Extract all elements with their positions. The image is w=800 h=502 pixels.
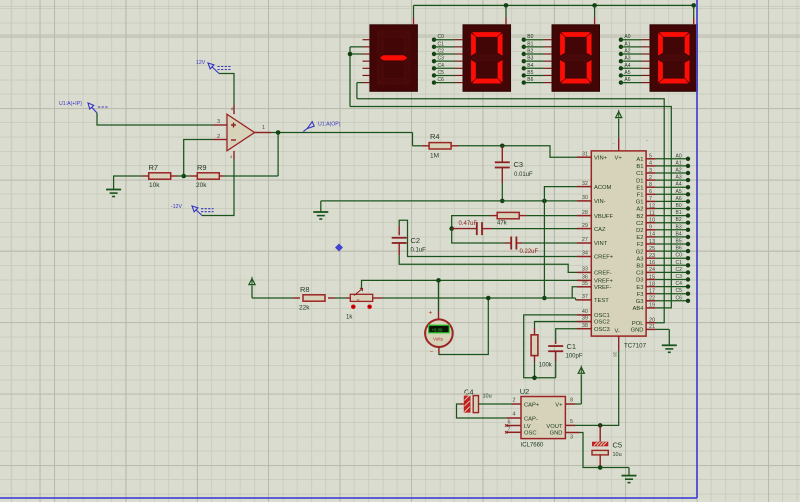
svg-text:14: 14 [649, 232, 655, 238]
svg-text:C2: C2 [411, 236, 421, 245]
wire R4 to VIN+ node [459, 145, 503, 147]
svg-text:8: 8 [570, 398, 573, 404]
svg-text:A5: A5 [624, 70, 630, 76]
svg-text:E3: E3 [636, 285, 643, 291]
svg-text:U1:A(OP): U1:A(OP) [318, 122, 341, 128]
node A0 [619, 34, 650, 42]
7-segment display DS2 (digit 0) [463, 25, 511, 92]
ground GND4 [622, 476, 637, 483]
svg-text:C1: C1 [676, 260, 683, 266]
wire common to R8 [252, 297, 293, 299]
svg-text:A6: A6 [624, 77, 630, 83]
node B3 (IC side) [656, 224, 691, 232]
svg-text:B1: B1 [636, 164, 643, 170]
svg-text:−: − [430, 349, 434, 356]
node B6 [522, 77, 552, 85]
svg-text:B1: B1 [527, 41, 533, 47]
pin DS3 common [594, 5, 596, 24]
svg-text:A1: A1 [636, 157, 643, 163]
svg-text:C6: C6 [676, 295, 683, 301]
node A0 (IC side) [656, 153, 691, 161]
pin DS4 common [693, 5, 695, 24]
svg-text:29: 29 [582, 223, 588, 229]
svg-text:24: 24 [649, 267, 655, 273]
svg-text:VREF+: VREF+ [594, 279, 613, 285]
junction dot C3/VIN- [500, 199, 505, 204]
svg-text:E2: E2 [636, 235, 643, 241]
op-amp U1:A [217, 106, 265, 159]
wire GND pin to ground [656, 329, 670, 345]
svg-text:B6: B6 [676, 246, 682, 252]
svg-text:TEST: TEST [594, 298, 609, 304]
svg-text:C4: C4 [676, 281, 683, 287]
svg-text:B2: B2 [676, 217, 682, 223]
capacitor C3 [495, 146, 533, 183]
svg-text:4: 4 [512, 412, 515, 418]
wire node A to 0.22uF [452, 229, 505, 243]
svg-text:10k: 10k [149, 182, 160, 189]
node A6 (IC side) [656, 196, 691, 204]
svg-text:B0: B0 [676, 203, 682, 209]
svg-text:12V: 12V [196, 60, 206, 66]
junction dot common/TEST [542, 296, 547, 301]
svg-text:Volts: Volts [433, 337, 444, 342]
pin U2 OSC (7) [505, 426, 521, 433]
pin U2 VOUT (5) [565, 419, 600, 425]
IC U3 right pin stubs and numbers [646, 154, 656, 331]
wire U2 GND to bottom node [580, 433, 601, 468]
node B3 [522, 56, 552, 64]
svg-text:G2: G2 [636, 249, 644, 255]
pin U1 -input [213, 139, 227, 141]
svg-text:16: 16 [649, 260, 655, 266]
wire VREF- to TEST net [572, 287, 577, 298]
junction dot meter return [486, 296, 491, 301]
svg-text:A1: A1 [624, 41, 630, 47]
pin DS2 common [505, 5, 507, 24]
node A4 (IC side) [656, 182, 691, 190]
svg-text:F1: F1 [637, 193, 644, 199]
node A3 [619, 56, 650, 64]
svg-text:4: 4 [230, 154, 233, 159]
svg-text:B1: B1 [676, 210, 682, 216]
svg-text:38: 38 [582, 323, 588, 329]
svg-text:0.22uF: 0.22uF [520, 249, 539, 255]
svg-text:‒: ‒ [646, 137, 649, 142]
node C5 [432, 70, 463, 78]
svg-text:D2: D2 [636, 228, 643, 234]
junction dot disp3 top [592, 3, 597, 8]
wire junction to U1 -input [184, 140, 213, 177]
node A1 [619, 41, 650, 49]
svg-text:28: 28 [582, 210, 588, 216]
svg-text:ICL7660: ICL7660 [521, 443, 544, 449]
wire R9 to R7 [184, 175, 190, 177]
wire C2 top to CREF+ [399, 220, 577, 256]
junction dot osc node [532, 376, 537, 381]
junction dot R7/R9 [181, 174, 186, 179]
svg-text:V+: V+ [615, 155, 623, 161]
capacitor C2 [392, 226, 426, 255]
svg-text:VIN+: VIN+ [594, 155, 608, 161]
svg-text:R9: R9 [197, 163, 207, 172]
svg-text:C4: C4 [438, 63, 445, 69]
resistor R9 [190, 163, 224, 189]
svg-text:C0: C0 [676, 253, 683, 259]
svg-text:A3: A3 [636, 256, 643, 262]
node B2 [522, 49, 552, 57]
svg-text:TC7107: TC7107 [624, 343, 647, 350]
node C2 [432, 49, 463, 57]
svg-text:26: 26 [613, 352, 618, 357]
node B0 (IC side) [656, 203, 691, 211]
node C0 [432, 34, 463, 42]
capacitor C5 10u [592, 425, 622, 467]
wire OSC1 [524, 315, 577, 378]
pins DS1 segment stubs [363, 40, 370, 83]
svg-text:33: 33 [582, 267, 588, 273]
svg-text:C3: C3 [514, 160, 524, 169]
svg-text:V-: V- [615, 329, 621, 335]
svg-text:1: 1 [262, 125, 265, 131]
terminal U1:A(+IP) input [59, 101, 109, 113]
node B6 (IC side) [656, 246, 691, 254]
svg-text:R7: R7 [149, 163, 159, 172]
svg-text:8: 8 [649, 182, 652, 188]
svg-text:5: 5 [649, 154, 652, 160]
svg-text:17: 17 [649, 289, 655, 295]
svg-text:19: 19 [649, 303, 655, 309]
svg-text:B2: B2 [527, 49, 533, 55]
svg-text:VIN-: VIN- [594, 199, 606, 205]
svg-text:OSC2: OSC2 [594, 320, 610, 326]
svg-text:A0: A0 [676, 153, 682, 159]
potentiometer RV1 1k [346, 288, 383, 320]
wire ACOM to VIN- [544, 187, 577, 201]
svg-text:100pF: 100pF [566, 354, 583, 360]
svg-text:7: 7 [507, 426, 510, 432]
svg-text:20: 20 [649, 318, 655, 324]
wire AB4 bus [350, 107, 671, 308]
terminal label U1:A(OP) [303, 122, 340, 132]
wire R8 to RV1 [335, 297, 346, 299]
IC U3 left pin names [594, 155, 614, 333]
wire C4 to CAP- [457, 404, 507, 418]
wire C2 bottom to CREF- [399, 255, 577, 272]
svg-text:ACOM: ACOM [594, 185, 612, 191]
svg-text:B4: B4 [527, 63, 533, 69]
resistor 47k (buffer) [490, 212, 526, 226]
pin U2 V+ (8) [565, 398, 581, 405]
svg-text:C2: C2 [676, 267, 683, 273]
svg-text:C3: C3 [676, 274, 683, 280]
svg-text:A5: A5 [676, 189, 682, 195]
svg-text:VBUFF: VBUFF [594, 214, 613, 220]
resistor R8 [293, 285, 335, 312]
node C5 (IC side) [656, 288, 691, 296]
svg-text:12: 12 [649, 203, 655, 209]
svg-text:B3: B3 [527, 56, 533, 62]
node B2 (IC side) [656, 217, 691, 225]
wire R7 to ground [114, 176, 184, 189]
wire TEST pin riser [576, 298, 577, 300]
svg-text:2: 2 [512, 398, 515, 404]
node C1 (IC side) [656, 260, 691, 268]
junction dot wiper/meter [436, 278, 441, 283]
capacitor C1 100pF [535, 329, 583, 378]
pin U2 GND (3) [565, 433, 579, 441]
node B4 (IC side) [656, 231, 691, 239]
node C4 [432, 63, 463, 71]
svg-text:23: 23 [649, 253, 655, 259]
node A6 [619, 77, 650, 85]
wire C3 to VIN- net [501, 183, 503, 201]
svg-text:B0: B0 [527, 34, 533, 40]
svg-text:A3: A3 [676, 175, 682, 181]
svg-text:0.1uF: 0.1uF [411, 248, 427, 254]
svg-text:21: 21 [649, 324, 655, 330]
marker blue diamond [335, 244, 343, 252]
svg-text:39: 39 [582, 316, 588, 322]
pin U1 V- [233, 151, 235, 159]
IC U3 TC7107 body [591, 137, 649, 357]
svg-text:GND: GND [550, 431, 563, 437]
svg-text:6: 6 [649, 189, 652, 195]
svg-text:OSC3: OSC3 [594, 327, 610, 333]
svg-text:F2: F2 [637, 242, 644, 248]
svg-text:A4: A4 [624, 63, 630, 69]
svg-text:C2: C2 [636, 221, 643, 227]
svg-text:47k: 47k [497, 221, 508, 227]
svg-text:3: 3 [217, 119, 220, 125]
wire bottom node to ground [600, 468, 629, 476]
wire U1 output to R4 [413, 133, 422, 146]
svg-text:VOUT: VOUT [546, 424, 563, 430]
svg-text:A6: A6 [676, 196, 682, 202]
svg-text:2: 2 [649, 175, 652, 181]
wire top common rail [414, 5, 694, 17]
svg-text:C3: C3 [438, 56, 445, 62]
node A3 (IC side) [656, 175, 691, 183]
svg-text:B3: B3 [636, 264, 643, 270]
terminal -12V [171, 204, 214, 216]
wire RV1 right to TEST net [383, 297, 576, 299]
junction dot C5 bottom [598, 465, 603, 470]
svg-text:-12V: -12V [171, 204, 182, 210]
wire common vertical to TEST net [543, 201, 545, 298]
svg-text:0.47uF: 0.47uF [459, 221, 478, 227]
svg-text:G3: G3 [636, 299, 644, 305]
node C3 (IC side) [656, 274, 691, 282]
wire POL bus [357, 99, 664, 323]
svg-text:VREF-: VREF- [594, 285, 611, 291]
svg-text:VINT: VINT [594, 241, 608, 247]
pin DS1 common [413, 18, 415, 25]
wire DS1 seg pins to AB4 bus [350, 47, 363, 107]
resistor R7 [142, 163, 177, 189]
node B1 (IC side) [656, 210, 691, 218]
svg-text:10: 10 [649, 218, 655, 224]
node C2 (IC side) [656, 267, 691, 275]
pin U1 +input [213, 124, 227, 126]
svg-text:18: 18 [649, 281, 655, 287]
wire RV1 wiper to VREF+ [362, 280, 582, 288]
svg-text:25: 25 [649, 246, 655, 252]
svg-text:3: 3 [570, 435, 573, 441]
ground GND2 [313, 212, 328, 219]
svg-text:A2: A2 [624, 49, 630, 55]
svg-text:A1: A1 [676, 160, 682, 166]
svg-text:C1: C1 [567, 342, 577, 351]
wire V- to VOUT node [600, 336, 619, 425]
node A5 (IC side) [656, 189, 691, 197]
svg-text:C0: C0 [438, 34, 445, 40]
node B0 [522, 34, 552, 42]
7-segment display DS1 (minus sign) [370, 25, 418, 92]
svg-text:A2: A2 [676, 168, 682, 174]
svg-text:11: 11 [649, 210, 655, 216]
voltmeter [425, 310, 453, 356]
svg-text:5: 5 [570, 419, 573, 425]
svg-text:0.01uF: 0.01uF [514, 172, 533, 178]
svg-text:CAP+: CAP+ [524, 402, 540, 408]
svg-text:A4: A4 [676, 182, 682, 188]
svg-text:OSC1: OSC1 [594, 313, 610, 319]
svg-text:V+: V+ [555, 402, 563, 408]
svg-text:A3: A3 [624, 56, 630, 62]
svg-text:U1:A(+IP): U1:A(+IP) [59, 101, 82, 107]
terminal common up-arrow [249, 277, 255, 298]
svg-text:D1: D1 [636, 178, 643, 184]
svg-text:32: 32 [582, 181, 588, 187]
terminal V+ arrow (U2) [578, 366, 584, 405]
svg-text:+0.00: +0.00 [432, 327, 443, 332]
terminal 12V [196, 60, 232, 74]
pin U1 output [255, 132, 272, 134]
junction dot DS1 [348, 52, 353, 57]
svg-text:▪▪: ▪▪ [357, 298, 359, 302]
svg-text:OSC: OSC [524, 431, 537, 437]
svg-text:C5: C5 [613, 441, 623, 450]
IC U3 left pin stubs and numbers [577, 151, 591, 329]
svg-text:34: 34 [582, 251, 588, 257]
svg-text:7: 7 [649, 196, 652, 202]
7-segment display DS4 (digit 0) [650, 25, 698, 92]
junction dot disp4 top [691, 3, 696, 8]
pin U2 LV (6) [505, 420, 521, 427]
svg-text:9: 9 [649, 225, 652, 231]
svg-text:G1: G1 [636, 200, 644, 206]
svg-text:31: 31 [582, 151, 588, 157]
svg-text:B4: B4 [676, 231, 682, 237]
svg-text:20k: 20k [196, 182, 207, 189]
terminal V+ arrow (TC7107) [616, 110, 622, 151]
junction dot node A [449, 226, 454, 231]
svg-text:22: 22 [649, 296, 655, 302]
node B5 [522, 70, 552, 78]
svg-text:CREF+: CREF+ [594, 255, 614, 261]
wire 0.47uF to CAZ [492, 228, 577, 230]
svg-text:C5: C5 [676, 288, 683, 294]
svg-text:POL: POL [632, 321, 644, 327]
svg-text:AB4: AB4 [633, 306, 645, 312]
svg-text:40: 40 [582, 309, 588, 315]
node C0 (IC side) [656, 253, 691, 261]
svg-text:LV: LV [524, 424, 531, 430]
svg-text:6: 6 [507, 420, 510, 426]
svg-text:37: 37 [582, 294, 588, 300]
capacitor 0.22uF [505, 237, 539, 256]
svg-text:C1: C1 [636, 171, 643, 177]
svg-text:4: 4 [649, 161, 652, 167]
svg-text:27: 27 [582, 237, 588, 243]
svg-text:U2: U2 [520, 387, 530, 396]
svg-text:B5: B5 [527, 70, 533, 76]
IC U2 ICL7660 body [520, 387, 566, 449]
wire meter + lead [438, 280, 440, 319]
wire U1 V- to -12V [202, 159, 234, 216]
junction dot ACOM branch [542, 199, 547, 204]
wire U1 output node [271, 132, 413, 134]
svg-text:A0: A0 [624, 34, 630, 40]
svg-text:30: 30 [582, 195, 588, 201]
wire meter - to TEST net [439, 298, 488, 355]
wire VBUFF to 47k [526, 215, 577, 217]
junction dot VOUT/V-/C5 [598, 423, 603, 428]
svg-text:15: 15 [649, 274, 655, 280]
svg-text:+: + [429, 310, 433, 317]
svg-text:10u: 10u [613, 452, 622, 458]
svg-text:B2: B2 [636, 214, 643, 220]
svg-text:1M: 1M [430, 153, 439, 160]
node B1 [522, 41, 552, 49]
wire input to op-amp + [97, 113, 213, 125]
svg-text:C6: C6 [438, 77, 445, 83]
svg-text:22k: 22k [299, 305, 310, 312]
7-segment display DS3 (digit 0) [552, 25, 600, 92]
junction dot disp2 top [504, 3, 509, 8]
svg-text:R8: R8 [300, 285, 310, 294]
svg-text:C5: C5 [438, 70, 445, 76]
capacitor C4 10u [464, 388, 512, 413]
svg-text:CAP-: CAP- [524, 416, 538, 422]
svg-text:A2: A2 [636, 207, 643, 213]
wire VIN- net [321, 201, 577, 212]
node C6 [432, 77, 463, 85]
junction dot VIN+ node [500, 144, 505, 149]
wire 12V to U1 V+ [219, 74, 234, 106]
node A4 [619, 63, 650, 71]
svg-text:13: 13 [649, 239, 655, 245]
node A5 [619, 70, 650, 78]
node C3 [432, 56, 463, 64]
wire DS1 G pin to POL bus [357, 83, 363, 99]
svg-text:1k: 1k [346, 315, 353, 321]
node C1 [432, 41, 463, 49]
svg-text:C2: C2 [438, 49, 445, 55]
svg-text:B6: B6 [527, 77, 533, 83]
pin U2 CAP+ (2) [512, 398, 521, 405]
svg-text:100k: 100k [539, 363, 553, 369]
ground GND1 [106, 190, 121, 197]
svg-text:C4: C4 [464, 388, 474, 397]
svg-text:B5: B5 [676, 239, 682, 245]
svg-text:C1: C1 [438, 41, 445, 47]
svg-text:F3: F3 [637, 292, 644, 298]
svg-text:B3: B3 [676, 224, 682, 230]
pin U1 V+ [233, 105, 235, 114]
wire node to pin VIN+ [502, 146, 577, 157]
